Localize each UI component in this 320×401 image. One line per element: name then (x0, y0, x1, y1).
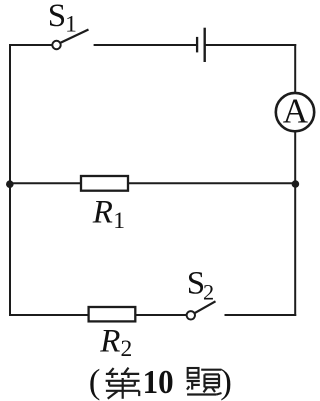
switch S2 blade (open, tilted up-right) (195, 301, 216, 313)
resistor R1 body (rectangle) (81, 176, 128, 191)
svg-text:S: S (48, 0, 66, 34)
node junction left (middle branch meets left wire) (6, 180, 14, 188)
battery positive plate (long) (203, 28, 205, 62)
wire left vertical (top-left corner to bottom-left corner) (9, 45, 11, 315)
svg-text:1: 1 (113, 208, 125, 234)
battery negative plate (short) (196, 37, 198, 53)
wire top middle segment (switch S1 to battery) (95, 44, 196, 46)
node junction right (middle branch meets right wire) (292, 180, 300, 188)
svg-text:(: ( (89, 362, 101, 401)
wire bottom middle segment (R2 to switch S2 pivot) (137, 314, 188, 316)
caption hanzi ti (题) drawn as strokes (187, 368, 222, 395)
wire top right segment (battery to top-right corner) (205, 44, 296, 46)
svg-text:A: A (283, 91, 309, 130)
wire middle horizontal branch through R1 (10, 182, 295, 184)
label R2 (99, 324, 132, 363)
svg-text:2: 2 (203, 279, 214, 304)
label S2 (187, 266, 214, 305)
switch S1 blade (open, tilted up-right) (61, 30, 89, 43)
wire bottom left segment (corner to R2) (10, 314, 89, 316)
svg-text:): ) (220, 362, 232, 401)
switch S2 pivot circle (187, 311, 195, 319)
wire bottom right segment (switch S2 to bottom-right corner) (226, 314, 296, 316)
svg-text:2: 2 (121, 336, 133, 362)
resistor R2 body (rectangle) (89, 307, 136, 321)
label S1 (48, 0, 77, 37)
wire top left segment (corner to switch S1 pivot) (10, 44, 53, 46)
svg-text:R: R (92, 194, 113, 230)
wire right vertical upper (corner to ammeter) (294, 45, 296, 92)
label R1 (92, 194, 125, 234)
svg-text:R: R (99, 324, 120, 360)
caption hanzi di (第) drawn as strokes (106, 368, 140, 399)
svg-text:10: 10 (143, 364, 174, 401)
wire right vertical lower (ammeter to bottom-right corner) (294, 133, 296, 316)
switch S1 pivot circle (52, 41, 60, 49)
ammeter circle (276, 93, 314, 131)
svg-text:1: 1 (65, 11, 77, 37)
